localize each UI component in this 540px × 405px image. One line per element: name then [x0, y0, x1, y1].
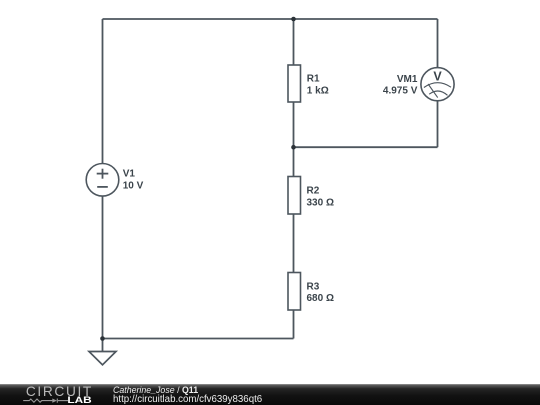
- svg-text:330 Ω: 330 Ω: [307, 197, 334, 208]
- svg-text:http://circuitlab.com/cfv639y8: http://circuitlab.com/cfv639y836qt6: [113, 394, 262, 405]
- svg-text:R1: R1: [307, 73, 320, 84]
- svg-text:V1: V1: [123, 169, 136, 180]
- svg-text:R3: R3: [307, 281, 320, 292]
- svg-text:VM1: VM1: [397, 74, 418, 85]
- svg-text:1 kΩ: 1 kΩ: [307, 85, 329, 96]
- svg-text:4.975 V: 4.975 V: [383, 86, 418, 97]
- svg-text:10 V: 10 V: [123, 180, 144, 191]
- svg-text:V: V: [433, 70, 442, 84]
- svg-text:LAB: LAB: [67, 395, 91, 405]
- svg-text:680 Ω: 680 Ω: [307, 293, 334, 304]
- svg-text:R2: R2: [307, 186, 320, 197]
